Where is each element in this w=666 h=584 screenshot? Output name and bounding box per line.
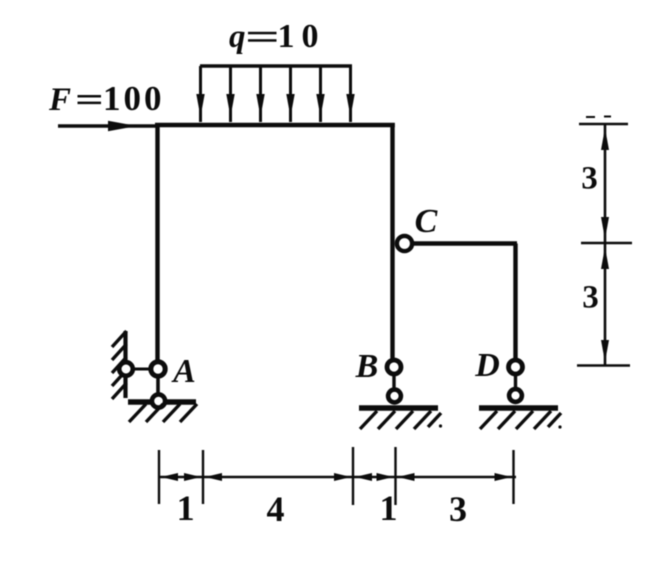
svg-text:q: q (229, 19, 246, 55)
support A wall roller pin (119, 362, 133, 376)
support D stub (514, 375, 517, 389)
speck near B hatching (439, 424, 442, 427)
right dimension arrows (601, 128, 609, 362)
support D lower roller (509, 389, 522, 402)
support A ground line (128, 399, 196, 404)
pin D (509, 360, 523, 374)
svg-text:A: A (171, 353, 196, 390)
svg-text:B: B (355, 348, 379, 385)
svg-text:1: 1 (380, 488, 398, 528)
pin B (387, 360, 401, 374)
svg-text:3: 3 (581, 161, 598, 197)
speck near D hatching (558, 425, 561, 428)
support A lower roller (152, 394, 165, 407)
bottom dimension line (158, 476, 516, 479)
column D (513, 244, 517, 360)
right dimension tick bottom (577, 364, 630, 366)
support A stub (156, 377, 160, 395)
bottom dimension tick 2 (202, 450, 204, 504)
svg-text:D: D (474, 347, 500, 384)
svg-text:3: 3 (449, 489, 467, 529)
distributed load q (196, 66, 354, 122)
label F=100 (48, 79, 165, 118)
svg-text:100: 100 (103, 79, 165, 118)
bottom dimension tick 1 (158, 450, 160, 504)
support A link (130, 368, 153, 371)
bottom dimension tick 3 (352, 447, 354, 505)
svg-text:C: C (415, 203, 438, 240)
svg-text:4: 4 (267, 489, 285, 529)
right dimension tick top (579, 123, 628, 125)
support B stub (392, 375, 395, 390)
speck above top right tick (586, 116, 595, 118)
bottom dimension tick 5 (512, 450, 514, 504)
column B (right) (390, 123, 394, 359)
bottom dimension tick 4 (394, 447, 396, 505)
right dimension tick middle (581, 242, 632, 244)
pin A (151, 362, 165, 376)
support B lower roller (388, 390, 401, 403)
support B ground line (359, 405, 438, 410)
support A ground hatching (129, 404, 197, 422)
support D ground line (479, 405, 558, 410)
svg-text:1: 1 (177, 488, 195, 528)
column A (left) (155, 123, 159, 361)
support A wall hatching (112, 331, 127, 399)
beam top (A-B corner) (155, 123, 395, 127)
bottom dimension arrows (161, 473, 512, 481)
label q=10 (229, 18, 326, 55)
hinge C (397, 236, 412, 251)
support B ground hatching (360, 411, 441, 429)
support A wall (123, 331, 127, 398)
right dimension line (604, 124, 607, 366)
svg-text:F: F (48, 82, 71, 118)
force arrow F (58, 121, 156, 131)
support D ground hatching (480, 411, 561, 429)
beam C-D (410, 241, 517, 245)
svg-text:3: 3 (582, 280, 599, 316)
svg-text:10: 10 (278, 18, 326, 55)
